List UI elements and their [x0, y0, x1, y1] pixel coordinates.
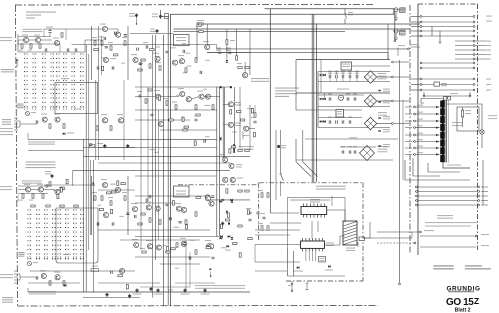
- T712 label: [145, 202, 151, 203]
- terminal: [473, 67, 475, 69]
- transistor T723: [147, 244, 152, 249]
- capacitor C728: [189, 256, 191, 259]
- wire: [65, 29, 67, 40]
- resistor R803: [167, 247, 169, 251]
- transistor T604: [42, 117, 47, 122]
- power transistor T718: [223, 157, 228, 162]
- wire from IC1 right: [327, 210, 345, 222]
- TB/TA label upper: [17, 104, 24, 105]
- note text: [488, 115, 497, 116]
- wire: [27, 133, 29, 139]
- Ta1 label: [400, 9, 404, 10]
- fuse box: [359, 237, 365, 241]
- wire connector pin 8: [413, 154, 440, 156]
- junction: [136, 23, 137, 24]
- wire: [469, 92, 471, 96]
- component frame C705: [91, 269, 99, 272]
- wire transformer to border: [363, 237, 413, 239]
- cap label: [152, 14, 158, 15]
- wire long vertical x163: [163, 35, 165, 306]
- resistor R638: [212, 105, 214, 109]
- resistor R612: [63, 124, 65, 128]
- resistor R628: [238, 67, 242, 69]
- wire: [428, 163, 460, 172]
- resistor R731: [142, 251, 146, 253]
- capacitor C804: [211, 196, 214, 198]
- diode label: [383, 89, 390, 90]
- terminal: [446, 97, 448, 99]
- T618 label: [178, 88, 184, 89]
- wire stub: [405, 141, 412, 143]
- row number labels: [486, 41, 491, 42]
- terminal stack: [473, 45, 475, 47]
- power board box right: [477, 4, 479, 250]
- value label: [182, 43, 186, 44]
- resistor R640: [183, 129, 187, 131]
- transistor T611: [133, 57, 138, 62]
- value: [251, 117, 255, 118]
- wire stub left: [411, 89, 420, 91]
- wire bottom row 5: [415, 204, 480, 206]
- capacitor C603: [342, 75, 344, 78]
- value label: [168, 289, 173, 290]
- diode pair at y118: [379, 117, 381, 119]
- terminal: [414, 120, 416, 122]
- bus wire y49: [217, 48, 408, 50]
- wire stub out: [475, 58, 486, 60]
- terminal below board: [291, 283, 293, 285]
- switch contact column lower x36.6: [36, 209, 40, 259]
- capacitor C800: [115, 32, 117, 35]
- resistor R602: [30, 44, 32, 48]
- capacitor C605: [356, 75, 358, 78]
- capacitor C631: [253, 121, 256, 123]
- electrolytic C701: [51, 174, 54, 178]
- T705 label: [54, 272, 60, 273]
- transistor T724: [156, 245, 161, 250]
- wire: [223, 124, 228, 126]
- switch contact column x33.0: [32, 53, 36, 107]
- wire rail y44.6 long: [72, 44, 217, 46]
- transistor T602: [35, 37, 40, 42]
- bus wire lower channel in: [73, 169, 230, 171]
- wire: [318, 117, 362, 119]
- wire stub: [481, 191, 488, 193]
- wire connector pin 5: [413, 134, 440, 136]
- transistor T618: [180, 91, 185, 96]
- wire IC1 top: [331, 196, 333, 206]
- wire rail y283: [98, 282, 160, 284]
- wire rail y163: [98, 162, 230, 164]
- wire label: [411, 44, 418, 45]
- diode D702: [92, 183, 94, 185]
- capacitor C606: [329, 97, 331, 100]
- wire vertical x250: [249, 29, 251, 75]
- wire stub left: [411, 35, 420, 37]
- labels: [378, 112, 387, 113]
- diode D721: [231, 237, 233, 239]
- switch box Ta2: [400, 31, 406, 36]
- ground: [394, 38, 398, 39]
- resistor R807: [247, 210, 249, 214]
- wire jack upper to amp: [20, 123, 37, 125]
- switch contact slant: [281, 175, 284, 181]
- diode label: [383, 129, 390, 130]
- wire stub: [405, 106, 412, 108]
- capacitor C612: [89, 144, 92, 146]
- value label: [186, 53, 191, 54]
- resistor R721: [141, 213, 145, 215]
- terminal bus2: [394, 40, 396, 42]
- resistor R810: [184, 126, 188, 128]
- wire: [342, 78, 344, 81]
- switch contact column x56.5: [56, 53, 60, 107]
- cap value: [346, 94, 350, 95]
- resistor R804: [60, 188, 62, 192]
- terminal: [414, 113, 416, 115]
- wire bend: [421, 99, 424, 104]
- wire vertical x124: [123, 80, 125, 160]
- capacitor C743: [248, 219, 251, 221]
- switch contact column lower x44.5: [44, 209, 48, 259]
- switch contact column lower x52.5: [52, 209, 56, 259]
- bus wire row4: [174, 28, 411, 30]
- wire rail y29 upper: [44, 28, 95, 30]
- wire vertical x186: [185, 240, 187, 292]
- wire: [340, 146, 376, 148]
- wire: [356, 78, 358, 81]
- D612 label: [226, 48, 231, 49]
- resistor R806: [240, 119, 244, 121]
- wire: [462, 117, 464, 127]
- header ENTZERRER-VORVERST: [23, 29, 43, 30]
- svg-text:Z: Z: [474, 296, 479, 306]
- none: [17, 190, 19, 196]
- labels: [378, 146, 388, 147]
- wire: [291, 285, 293, 290]
- transistor T606: [102, 118, 107, 123]
- wire vertical x293: [292, 251, 294, 276]
- resistor R807: [111, 191, 115, 193]
- value label: [101, 57, 105, 58]
- resistor R701: [22, 194, 24, 198]
- wire to IC1 b: [270, 212, 299, 214]
- transistor T615: [205, 45, 210, 50]
- wire mains row 2: [421, 21, 474, 23]
- transistor T709: [103, 212, 108, 217]
- bus vertical x270: [269, 9, 271, 160]
- transistor T711: [132, 207, 137, 212]
- cap value: [341, 117, 345, 118]
- T610 label: [110, 58, 116, 59]
- wire stub out: [475, 45, 486, 47]
- wire rail: [318, 106, 390, 108]
- PS note line2: [275, 90, 295, 91]
- cap value: [335, 117, 339, 118]
- label arrow: [424, 230, 434, 231]
- capacitor C801: [139, 63, 142, 65]
- component frame: [90, 145, 95, 148]
- terminal stack: [473, 54, 475, 56]
- wire rail y235: [255, 234, 290, 236]
- resistor R618: [110, 46, 112, 50]
- T725 label: [180, 238, 186, 239]
- cap value: [353, 146, 357, 147]
- schematic border bottom: [18, 305, 379, 308]
- terminal y49 right: [408, 48, 410, 50]
- wire bottom row 1: [415, 186, 480, 188]
- wire: [481, 134, 483, 148]
- terminal row4 left: [420, 30, 422, 32]
- contact arrow: [436, 140, 439, 142]
- capacitor C604: [349, 75, 351, 78]
- value label: [175, 268, 179, 269]
- transistor T614: [179, 59, 184, 64]
- wire long vertical x89: [88, 54, 90, 250]
- T614 label: [178, 55, 184, 56]
- box label: [441, 83, 447, 84]
- resistor C705: [60, 205, 64, 207]
- switch column guide lines upper: [26, 53, 82, 111]
- value: [156, 62, 161, 63]
- connector top cap: [444, 97, 451, 101]
- connector label: [450, 93, 458, 94]
- T701 label: [24, 184, 30, 185]
- resistor R636: [245, 150, 249, 152]
- wire mains row 1: [421, 16, 474, 18]
- value: [108, 197, 113, 198]
- wire to border: [394, 76, 409, 78]
- diode pair at y102: [379, 101, 381, 103]
- T612 label: [153, 53, 159, 54]
- T603 label: [53, 38, 59, 39]
- diode D701: [64, 284, 66, 286]
- wire below connector: [443, 163, 470, 168]
- fuse label: [400, 29, 406, 30]
- wire stub left: [411, 30, 420, 32]
- resistor R718: [110, 201, 112, 205]
- pin label: [417, 125, 423, 126]
- TB/TA label lower: [19, 252, 25, 253]
- power board box left: [417, 4, 419, 255]
- value: [19, 200, 23, 201]
- wire rail y33.5: [130, 33, 174, 35]
- wire long vertical x152.5: [152, 35, 154, 298]
- row number labels: [486, 16, 492, 17]
- switch block frame lower: [56, 208, 98, 263]
- pin label: [417, 112, 423, 113]
- wire bottom row 2: [415, 191, 480, 193]
- wire: [226, 29, 228, 40]
- diode D613: [226, 60, 228, 62]
- terminal row2 left: [420, 21, 422, 23]
- wire rail y196: [135, 195, 205, 197]
- value label: [221, 247, 226, 248]
- resistor R722: [149, 218, 151, 222]
- bus vertical x314: [313, 14, 315, 182]
- electrolytic C613: [103, 144, 106, 148]
- diode D626: [323, 120, 325, 122]
- jack caption: [2, 119, 11, 120]
- contact arrow: [436, 134, 439, 136]
- pin label: [417, 139, 423, 140]
- connector strip outer rail: [448, 100, 450, 163]
- capacitor C612: [349, 120, 351, 123]
- diode D304: [297, 266, 299, 268]
- value label: [154, 152, 159, 153]
- D601 label: [67, 132, 74, 133]
- resistor R804: [126, 285, 128, 289]
- switch contact Ta: [344, 13, 346, 15]
- wire: [377, 123, 392, 125]
- input jack upper (DIN socket): [14, 118, 20, 130]
- resistor R622: [149, 64, 151, 68]
- resistor R611: [49, 124, 51, 128]
- T623 label: [235, 123, 241, 124]
- resistor R743: [261, 226, 263, 230]
- terminal stack: [473, 49, 475, 51]
- wire IC2 pin drop: [312, 251, 314, 261]
- capacitor C722: [165, 204, 168, 206]
- diode D719: [231, 200, 233, 202]
- resistor R735: [238, 225, 242, 227]
- cap value: [335, 71, 339, 72]
- terminal row5 right: [473, 35, 475, 37]
- terminal: [392, 100, 394, 102]
- bus wire +V rail: [170, 14, 394, 305]
- switch contact column x72.0: [71, 53, 75, 107]
- wire: [17, 195, 19, 202]
- capacitor C718: [112, 222, 114, 225]
- resistor R631: [148, 89, 152, 91]
- resistor R637: [195, 105, 197, 109]
- component box below IC2: [319, 257, 326, 263]
- terminal row1 left: [420, 16, 422, 18]
- value: [258, 223, 263, 224]
- transistor T721: [230, 177, 235, 182]
- relay label: [337, 111, 342, 112]
- resistor R734: [195, 250, 197, 254]
- terminal: [420, 62, 422, 64]
- logo subtitle electronic: [448, 291, 474, 293]
- value: [137, 91, 142, 92]
- rectifier labels: [378, 73, 387, 74]
- capacitor C717: [97, 222, 99, 225]
- label: [281, 145, 286, 146]
- switch contact column lower x73.5: [73, 209, 77, 259]
- capacitor C614: [349, 150, 351, 153]
- power board dash-dot box: [178, 183, 364, 281]
- cap value: [328, 71, 332, 72]
- T722 label: [132, 239, 138, 240]
- schematic border left: [16, 5, 18, 306]
- wire ps row3 top: [296, 109, 362, 111]
- bus wire upper channel out: [28, 138, 217, 140]
- resistor R805: [229, 149, 231, 153]
- diode D601: [63, 133, 65, 135]
- wire long vertical x158.5: [158, 110, 160, 240]
- resistor R627: [226, 40, 228, 44]
- value: [163, 98, 168, 99]
- bus vertical right: [394, 14, 396, 40]
- wire stub: [405, 127, 412, 129]
- diode pair at y131: [379, 130, 381, 132]
- resistor R804: [228, 213, 230, 217]
- diode D625: [320, 120, 322, 122]
- wire stub stack: [455, 49, 474, 51]
- terminal: [478, 200, 480, 202]
- switch box Ta1: [400, 8, 406, 13]
- diode D718: [220, 200, 222, 202]
- cap value label: [133, 294, 142, 295]
- transistor T605: [55, 117, 60, 122]
- switch contact column x80.5: [80, 53, 84, 107]
- value: [230, 40, 235, 41]
- capacitor C604: [67, 48, 69, 51]
- electrolytic capacitor x185: [184, 289, 187, 293]
- capacitor C602: [336, 75, 338, 78]
- D304 label: [293, 271, 303, 272]
- value: [122, 37, 127, 38]
- terminal: [478, 204, 480, 206]
- wire: [447, 96, 449, 100]
- capacitor C627: [139, 94, 141, 97]
- resistor R711: [49, 281, 51, 285]
- wire: [223, 103, 228, 105]
- wire rail y193.5 lower: [18, 193, 48, 195]
- contact arrow: [436, 147, 439, 149]
- capacitor C615: [354, 150, 356, 153]
- wire rail y147.5: [98, 147, 217, 149]
- wire rail y236: [135, 236, 219, 238]
- T707 label: [101, 179, 107, 180]
- capacitor C622: [165, 51, 168, 53]
- resistor R634: [175, 105, 177, 109]
- text board number: [425, 226, 471, 227]
- wire: [352, 65, 391, 67]
- wire rail y283 left: [28, 282, 80, 284]
- wire ps row2 top: [296, 92, 390, 94]
- switch label lower: [63, 254, 71, 255]
- terminal: [420, 78, 422, 80]
- wire vertical x96: [95, 80, 97, 160]
- contact arrow: [436, 120, 439, 122]
- wire: [216, 45, 218, 49]
- resistor R804: [237, 111, 241, 113]
- wire to connector top: [421, 98, 448, 100]
- value label: [119, 216, 123, 217]
- P601 label: [31, 112, 36, 113]
- capacitor C611: [36, 120, 38, 123]
- wire ps row1 rail b: [318, 81, 390, 83]
- wire stub stack: [455, 40, 474, 42]
- transistor T708: [115, 187, 120, 192]
- wire vertical x128 lower: [127, 176, 129, 235]
- T601 label: [22, 35, 28, 36]
- wire stub out: [475, 49, 486, 51]
- jack caption lower: [2, 297, 13, 298]
- contact arrow: [436, 153, 439, 155]
- black cap mark: [277, 145, 280, 148]
- capacitor C611: [342, 120, 344, 123]
- wire stub left: [411, 84, 420, 86]
- wire vertical x276: [275, 130, 277, 200]
- resistor R726: [195, 212, 197, 216]
- terminal: [420, 231, 422, 233]
- wire long vertical x399.5: [399, 60, 401, 283]
- transistor T713: [155, 206, 160, 211]
- bridge rectifier GR1: [364, 71, 376, 83]
